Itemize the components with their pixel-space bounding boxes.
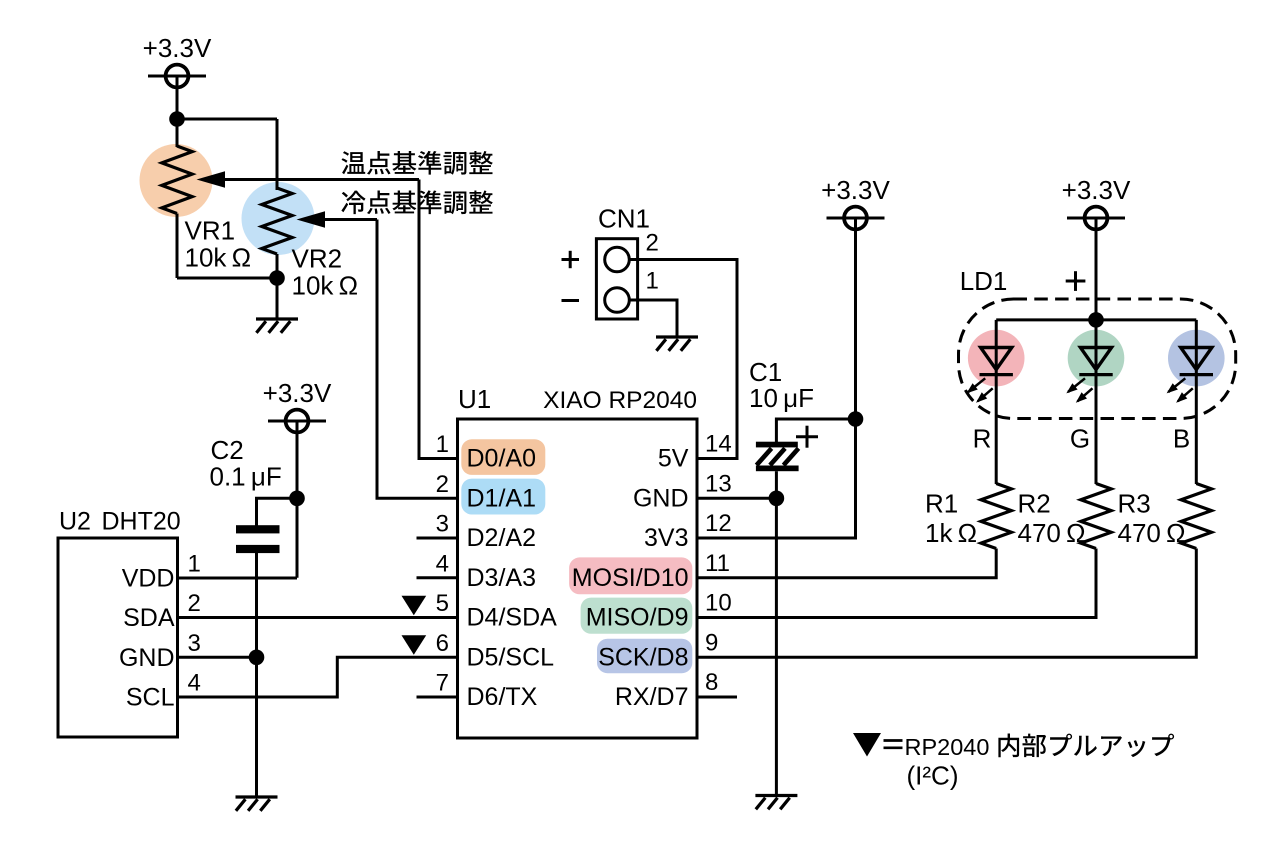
power +3.3V (VR1) [143,33,212,91]
label 1kΩ [925,518,977,548]
svg-text:RX/D7: RX/D7 [615,683,689,711]
svg-text:VDD: VDD [122,565,175,593]
svg-text:13: 13 [705,470,732,497]
wire GND [178,656,257,659]
label U2 DHT20 [59,508,181,536]
svg-text:D6/TX: D6/TX [467,683,538,711]
junction [769,491,785,507]
svg-text:10: 10 [705,590,732,617]
wire [1095,228,1098,320]
svg-text:3V3: 3V3 [644,524,688,552]
pin label D1/A1 [467,484,536,512]
pin number 10 [705,590,732,617]
junction [269,270,285,286]
label C1 [749,357,782,387]
power +3.3V (C2) [263,378,332,436]
pin number 7 [436,670,449,697]
pin number 9 [705,629,718,656]
pin label 3V3 [644,524,688,552]
svg-text:RP2040: RP2040 [905,734,990,760]
svg-text:G: G [1070,423,1090,453]
pin number 8 [705,669,718,696]
label VR1 [185,216,236,246]
wire [255,657,258,797]
label R [973,423,992,453]
svg-text:4: 4 [188,670,201,697]
pin stub D3/A3 [417,576,458,579]
label R2 [1018,489,1051,519]
svg-text:3: 3 [436,511,449,538]
svg-text:10 μF: 10 μF [749,383,814,413]
note 内部プルアップ [998,734,1174,758]
svg-text:SDA: SDA [123,604,175,632]
power +3.3V (3V3) [821,175,890,233]
pin label D3/A3 [467,564,536,592]
svg-text:GND: GND [119,644,175,672]
svg-text:9: 9 [705,629,718,656]
svg-text:U1: U1 [458,384,491,414]
wire [775,471,778,498]
svg-text:1: 1 [646,268,659,295]
svg-text:10k Ω: 10k Ω [185,243,252,273]
note RP2040 [905,734,990,760]
IC U2 DHT20 box [58,538,178,737]
wire 冷点 to pin2 [377,220,458,499]
label 0.1μF [210,462,282,492]
CN1 number 1 [646,268,659,295]
label 冷点基準調整 [341,190,492,214]
pin highlight MISO/D9 [581,598,693,634]
note (I2C) [907,761,959,791]
svg-text:11: 11 [705,550,730,577]
LED diode symbol [1095,320,1098,375]
svg-text:R2: R2 [1018,489,1051,519]
pin highlight SCK/D8 [597,639,692,674]
LED G [1066,320,1124,403]
connector CN1 box [596,239,637,319]
pin highlight MOSI/D10 [569,557,692,594]
svg-text:+3.3V: +3.3V [143,33,212,63]
pin number 13 [705,470,732,497]
svg-text:R1: R1 [925,489,958,519]
label LD1 [960,266,1008,296]
svg-text:+3.3V: +3.3V [263,378,332,408]
label 10μF [749,383,814,413]
label − [562,299,580,302]
pin label D6/TX [467,683,538,711]
wire SCL [178,657,458,697]
svg-text:CN1: CN1 [598,204,650,234]
svg-text:U2: U2 [59,508,91,536]
capacitor C1 [756,442,799,472]
pin highlight D1/A1 [461,479,545,515]
junction [289,491,305,507]
label G [1070,423,1090,453]
pin label D0/A0 [467,445,536,473]
svg-text:1k Ω: 1k Ω [925,518,977,548]
capacitor C1 + [796,426,818,448]
svg-text:8: 8 [705,669,718,696]
svg-text:+3.3V: +3.3V [1062,175,1131,205]
pin number 12 [705,510,732,537]
label CN1 [598,204,650,234]
label R3 [1118,489,1151,519]
svg-text:B: B [1173,423,1190,453]
pin stub RX/D7 [697,696,737,699]
pin number 14 [705,431,732,458]
IC U1 XIAO RP2040 box [458,419,698,738]
VR2 wiper arrow [297,211,378,227]
svg-text:D5/SCL: D5/SCL [467,643,555,671]
wire 3V3 [697,228,856,538]
LED B [1167,320,1225,403]
wire [176,86,179,119]
pin label MISO/D9 [586,604,689,632]
wire [177,118,277,121]
wire SDA [178,616,458,619]
label XIAO RP2040 [543,387,697,414]
svg-text:4: 4 [436,550,449,577]
ground [236,797,278,811]
svg-text:470 Ω: 470 Ω [1118,518,1186,548]
CN1 pin 1 circle [605,288,630,313]
wire SCK [697,549,1196,658]
pin label GND [633,484,689,512]
potentiometer VR2 [242,119,315,278]
pin label MOSI/D10 [572,564,689,592]
label VR2 [292,244,343,274]
wire C2 tap [257,498,298,526]
pin number 3 [436,511,449,538]
label + [562,251,580,268]
svg-text:+3.3V: +3.3V [821,175,890,205]
LED R [967,320,1025,403]
wire C1 tap [776,419,855,442]
svg-text:(I²C): (I²C) [907,761,959,791]
svg-text:D2/A2: D2/A2 [467,524,536,552]
LED highlight circle [968,330,1025,387]
LED highlight circle [1168,330,1225,387]
svg-text:GND: GND [633,484,689,512]
svg-text:XIAO RP2040: XIAO RP2040 [543,387,697,414]
LED light arrows [1068,378,1085,392]
wire GND pin13 [697,497,776,500]
svg-text:SCK/D8: SCK/D8 [598,643,688,671]
svg-text:1: 1 [436,431,449,458]
junction [249,650,265,666]
svg-text:D0/A0: D0/A0 [467,445,536,473]
pin label D4/SDA [467,604,558,632]
svg-text:D4/SDA: D4/SDA [467,604,558,632]
potentiometer VR1 [140,119,213,278]
pin label RX/D7 [615,683,689,711]
CN1 pin 2 circle [605,247,630,272]
svg-text:R: R [973,423,992,453]
note = [884,741,903,748]
pin stub D6/TX [417,696,458,699]
junction [169,111,185,127]
ground [656,337,698,351]
svg-text:5: 5 [436,590,449,617]
LED diode symbol [1195,320,1198,375]
svg-text:MISO/D9: MISO/D9 [586,604,689,632]
wire CN1-1 to gnd [629,300,677,337]
wire CN1-2 to 5V [629,260,737,459]
svg-text:2: 2 [646,230,659,257]
svg-text:5V: 5V [658,445,689,473]
LD1 dashed outline [959,299,1236,419]
resistor R2 [1081,484,1111,549]
pin number 11 [705,550,730,577]
CN1 number 2 [646,230,659,257]
label 温点基準調整 [342,151,493,175]
wire VDD [178,577,298,580]
svg-text:VR1: VR1 [185,216,236,246]
svg-text:R3: R3 [1118,489,1151,519]
label 10kΩ [185,243,252,273]
svg-text:0.1 μF: 0.1 μF [210,462,282,492]
svg-text:MOSI/D10: MOSI/D10 [572,564,689,592]
svg-text:SCL: SCL [126,684,175,712]
resistor R1 [981,484,1011,549]
wire 温点 to pin1 [419,180,458,459]
svg-text:10k Ω: 10k Ω [292,271,359,301]
svg-text:LD1: LD1 [960,266,1008,296]
junction [1088,312,1104,328]
wire [177,277,277,280]
svg-text:D3/A3: D3/A3 [467,564,536,592]
label C2 [211,435,244,465]
resistor R3 [1181,484,1211,549]
capacitor C2 [236,525,280,657]
ground [755,796,797,810]
svg-text:7: 7 [436,670,449,697]
label R1 [925,489,958,519]
wire [1195,375,1198,484]
pin label SCK/D8 [598,643,688,671]
wire MOSI [697,549,996,578]
svg-text:6: 6 [436,630,449,657]
junction [848,411,864,427]
note pullup triangle [853,733,881,757]
pin number 4 [436,550,449,577]
VR1 wiper arrow [197,171,420,187]
wire [276,278,279,319]
pullup triangle pin5 [402,596,427,615]
LED light arrows [1168,378,1185,392]
pin label D2/A2 [467,524,536,552]
U2 pin 4 SCL [126,670,201,712]
wire LED bus [996,318,1196,321]
LED highlight circle [1068,330,1125,387]
U2 pin 1 VDD [122,551,201,593]
pin label 5V [658,445,689,473]
svg-text:470 Ω: 470 Ω [1018,518,1086,548]
svg-text:2: 2 [188,590,201,617]
label U1 [458,384,491,414]
svg-text:14: 14 [705,431,732,458]
wire MISO [697,549,1096,618]
svg-text:C2: C2 [211,435,244,465]
pin number 2 [436,471,449,498]
label 10kΩ [292,271,359,301]
LED diode symbol [995,320,998,375]
label + (LD1) [1066,271,1086,291]
wire [995,375,998,484]
wire [775,498,778,795]
svg-text:3: 3 [188,630,201,657]
pullup triangle pin6 [402,635,427,654]
label 470Ω (R3) [1118,518,1186,548]
svg-text:D1/A1: D1/A1 [467,484,536,512]
svg-text:1: 1 [188,551,201,578]
power +3.3V (LED) [1062,175,1131,233]
ground [256,319,298,333]
pin number 6 [436,630,449,657]
svg-text:12: 12 [705,510,732,537]
U2 pin 2 SDA [123,590,201,632]
pin number 5 [436,590,449,617]
svg-text:DHT20: DHT20 [102,508,181,536]
pin highlight D0/A0 [461,439,545,475]
U2 pin 3 GND [119,630,201,672]
svg-text:2: 2 [436,471,449,498]
svg-text:VR2: VR2 [292,244,343,274]
label B [1173,423,1190,453]
wire [296,431,299,578]
pin stub D2/A2 [417,537,458,540]
label 470Ω [1018,518,1086,548]
pin label D5/SCL [467,643,555,671]
wire [1095,375,1098,484]
pin number 1 [436,431,449,458]
LED light arrows [968,378,985,392]
